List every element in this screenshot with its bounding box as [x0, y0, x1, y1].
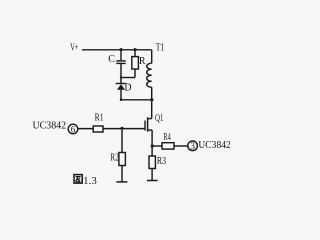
svg-text:6: 6: [71, 124, 76, 134]
svg-text:UC3842: UC3842: [198, 140, 230, 151]
svg-text:R1: R1: [95, 112, 104, 123]
svg-text:R4: R4: [163, 132, 170, 143]
svg-text:Q1: Q1: [155, 113, 163, 124]
svg-text:T1: T1: [156, 42, 165, 53]
svg-text:1.3: 1.3: [83, 176, 97, 187]
svg-text:3: 3: [190, 141, 195, 151]
svg-text:R2: R2: [110, 152, 118, 163]
svg-text:D: D: [124, 82, 131, 93]
svg-text:R3: R3: [157, 156, 166, 167]
svg-text:V+: V+: [70, 43, 78, 54]
svg-text:C: C: [108, 54, 115, 65]
svg-text:R: R: [139, 56, 146, 67]
svg-text:UC3842: UC3842: [33, 121, 67, 132]
